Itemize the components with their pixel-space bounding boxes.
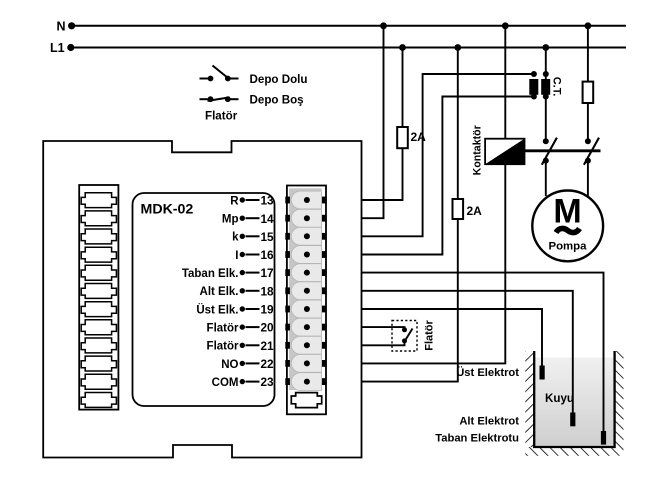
current transformer CT [529, 71, 550, 100]
svg-text:Kuyu: Kuyu [545, 392, 574, 405]
svg-text:Flatör: Flatör [207, 341, 239, 353]
wire L1 to CT primary / motor phase [545, 48, 547, 141]
svg-text:M: M [553, 193, 581, 231]
svg-text:18: 18 [261, 284, 275, 298]
svg-text:Mp: Mp [222, 214, 239, 226]
svg-text:22: 22 [261, 357, 275, 371]
contactor contact K1-2 [584, 138, 599, 165]
well floor hatching [525, 447, 623, 456]
wire N to fuse F3 to contact K1-2 [587, 26, 589, 141]
terminal 16 [285, 246, 326, 264]
svg-text:I: I [235, 250, 238, 262]
svg-text:17: 17 [261, 266, 275, 280]
svg-text:N: N [57, 20, 66, 34]
svg-text:COM: COM [212, 377, 239, 389]
svg-text:13: 13 [261, 194, 275, 208]
terminal 17 [285, 264, 326, 282]
float switch legend: Depo Bos (closed contact) [200, 93, 304, 106]
svg-text:Depo Dolu: Depo Dolu [250, 73, 308, 86]
terminal 23 [285, 373, 326, 391]
terminal block mounting foot [291, 393, 321, 408]
svg-text:15: 15 [261, 230, 275, 244]
svg-text:Depo Boş: Depo Boş [250, 93, 304, 106]
pin 23 COM [212, 375, 274, 389]
svg-text:L1: L1 [50, 41, 65, 55]
contactor contact K1-1 [542, 138, 557, 165]
wire pin 20 to float switch [362, 327, 405, 330]
terminal 22 [285, 355, 326, 373]
wire pin 17 Taban Elk. to bottom electrode [362, 273, 604, 432]
relay module U1 MDK-02 body [133, 193, 275, 406]
bus L1 [50, 41, 626, 55]
float switch S1 Flator (dashed enclosure) [392, 321, 417, 352]
motor M1 Pompa [532, 191, 603, 262]
electrode Ust Elektrot [456, 366, 544, 380]
svg-text:Üst Elk.: Üst Elk. [196, 303, 238, 316]
wire N to contactor coil K1 [504, 26, 506, 139]
junction on N at x=383.5 [380, 22, 387, 29]
well walls [534, 351, 614, 447]
svg-text:23: 23 [261, 375, 275, 389]
well Kuyu [525, 351, 623, 456]
junction on L1 at x=402.5 [399, 44, 406, 51]
pin 21 Flatör [207, 339, 275, 353]
wire N to pin 14 Mp [362, 26, 384, 218]
svg-text:Flatör: Flatör [205, 109, 238, 122]
electrode Alt Elektrot [459, 413, 575, 428]
wire contactor coil to pin 22 NO [362, 164, 506, 363]
pin 16 I [235, 248, 274, 262]
terminal 18 [285, 282, 326, 300]
svg-text:Flatör: Flatör [207, 323, 239, 335]
fuse F3 [583, 82, 594, 103]
wire pin 21 to float switch [362, 341, 405, 345]
wire L1 to fuse F2 to pin 23 COM [362, 48, 458, 382]
pin 17 Taban Elk. [182, 266, 274, 280]
svg-text:Pompa: Pompa [549, 240, 588, 252]
left DIN terminal strip [79, 185, 118, 410]
svg-text:Taban Elektrotu: Taban Elektrotu [435, 433, 519, 445]
junction on L1 at x=457.8 [454, 44, 461, 51]
pin 19 Üst Elk. [196, 303, 274, 317]
wire pin 18 Alt Elk. to middle electrode [362, 291, 573, 413]
float switch legend: Depo Dolu (open contact) [200, 66, 308, 86]
well wall hatching right [615, 351, 624, 447]
svg-text:Alt Elk.: Alt Elk. [200, 286, 239, 298]
svg-text:14: 14 [261, 212, 275, 226]
svg-text:16: 16 [261, 248, 275, 262]
wire CT secondary l to pin 16 [362, 97, 534, 255]
svg-text:21: 21 [261, 339, 275, 353]
svg-text:2A: 2A [411, 130, 427, 144]
pin rows of MDK-02 [182, 194, 274, 390]
wire pin 19 Ust Elk. to top electrode [362, 309, 543, 366]
well wall hatching left [525, 351, 534, 447]
terminal 20 [285, 318, 326, 336]
wire contact K1-1 to motor [545, 161, 547, 196]
fuse F1 2A [397, 127, 426, 148]
contactor K1 coil box [485, 139, 524, 165]
terminal 13 [285, 191, 326, 209]
svg-text:19: 19 [261, 303, 275, 317]
terminal 15 [285, 227, 326, 245]
DIN connector strip (left) [79, 185, 118, 410]
svg-text:2A: 2A [467, 204, 483, 218]
terminal 19 [285, 300, 326, 318]
svg-text:MDK-02: MDK-02 [141, 202, 194, 218]
terminal 21 [285, 336, 326, 354]
svg-text:20: 20 [261, 321, 275, 335]
pin 22 NO [221, 357, 274, 371]
svg-text:Üst Elektrot: Üst Elektrot [456, 366, 519, 379]
bus N [57, 20, 627, 34]
wire contact K1-2 to motor [587, 161, 589, 200]
svg-text:k: k [232, 232, 239, 244]
pin 15 k [232, 230, 274, 244]
junction on L1 at x=545.8 [542, 44, 549, 51]
svg-text:R: R [230, 195, 239, 207]
pin 18 Alt Elk. [200, 284, 275, 298]
device case outline [43, 141, 361, 458]
fuse F2 2A [453, 199, 483, 219]
svg-text:Alt Elektrot: Alt Elektrot [459, 416, 519, 428]
electrode Taban Elektrotu [435, 431, 606, 445]
svg-text:C.T.: C.T. [551, 77, 563, 97]
junction on N at x=506.6 [502, 22, 509, 29]
svg-text:Kontaktör: Kontaktör [471, 125, 483, 175]
pin 14 Mp [222, 212, 274, 226]
right terminal block [285, 186, 326, 415]
svg-text:NO: NO [221, 359, 238, 371]
wire CT secondary k to pin 15 [362, 74, 534, 236]
terminal block TB2 (outputs 13-23) [287, 186, 326, 415]
svg-text:Taban Elk.: Taban Elk. [182, 268, 239, 280]
svg-text:Flatör: Flatör [424, 320, 436, 351]
wire L1 to fuse F1 to pin 13 R [362, 48, 403, 201]
pin 13 R [230, 194, 274, 208]
pin 20 Flatör [207, 321, 275, 335]
contactor linkage [525, 149, 601, 152]
terminal 14 [285, 209, 326, 227]
junction on N at x=587.9 [585, 22, 592, 29]
